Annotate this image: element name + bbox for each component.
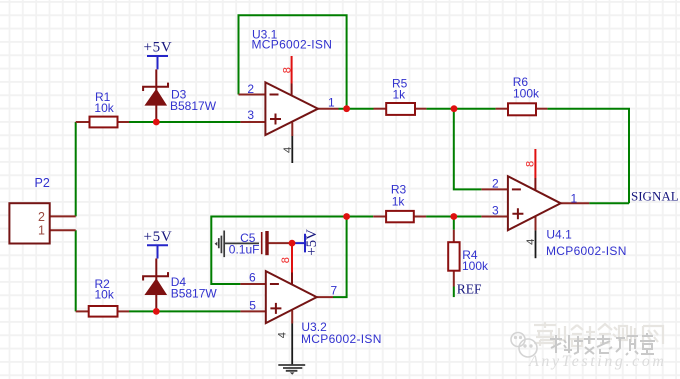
svg-text:MCP6002-ISN: MCP6002-ISN — [252, 38, 333, 52]
svg-text:+5V: +5V — [304, 229, 320, 256]
svg-text:4: 4 — [525, 239, 537, 245]
svg-text:10k: 10k — [95, 288, 115, 302]
svg-text:4: 4 — [276, 332, 288, 338]
svg-text:2: 2 — [247, 82, 254, 96]
svg-text:+5V: +5V — [144, 229, 173, 245]
svg-text:4: 4 — [282, 147, 294, 153]
svg-text:0.1uF: 0.1uF — [229, 242, 260, 256]
svg-text:1: 1 — [38, 224, 45, 238]
svg-text:P2: P2 — [35, 176, 50, 190]
svg-text:3: 3 — [492, 204, 499, 218]
svg-text:+5V: +5V — [144, 40, 173, 56]
svg-text:REF: REF — [457, 282, 482, 297]
svg-text:7: 7 — [331, 284, 338, 298]
svg-text:MCP6002-ISN: MCP6002-ISN — [301, 332, 382, 346]
svg-text:8: 8 — [524, 161, 536, 167]
svg-text:U4.1: U4.1 — [546, 227, 572, 241]
svg-text:B5817W: B5817W — [170, 99, 217, 113]
svg-text:100k: 100k — [513, 86, 540, 100]
svg-text:1k: 1k — [392, 195, 406, 209]
svg-text:100k: 100k — [462, 259, 489, 273]
svg-text:3: 3 — [247, 108, 254, 122]
svg-text:10k: 10k — [94, 101, 114, 115]
svg-text:2: 2 — [492, 177, 499, 191]
svg-text:AnyTesting.com: AnyTesting.com — [528, 353, 667, 370]
svg-text:8: 8 — [281, 67, 293, 73]
svg-text:B5817W: B5817W — [171, 287, 218, 301]
svg-text:5: 5 — [249, 299, 256, 313]
svg-text:1k: 1k — [393, 88, 407, 102]
svg-text:1: 1 — [328, 96, 335, 110]
svg-text:6: 6 — [249, 271, 256, 285]
svg-text:2: 2 — [38, 210, 45, 224]
svg-text:MCP6002-ISN: MCP6002-ISN — [546, 244, 627, 258]
svg-text:SIGNAL: SIGNAL — [631, 188, 679, 203]
svg-text:8: 8 — [280, 257, 292, 263]
svg-text:1: 1 — [571, 192, 578, 206]
